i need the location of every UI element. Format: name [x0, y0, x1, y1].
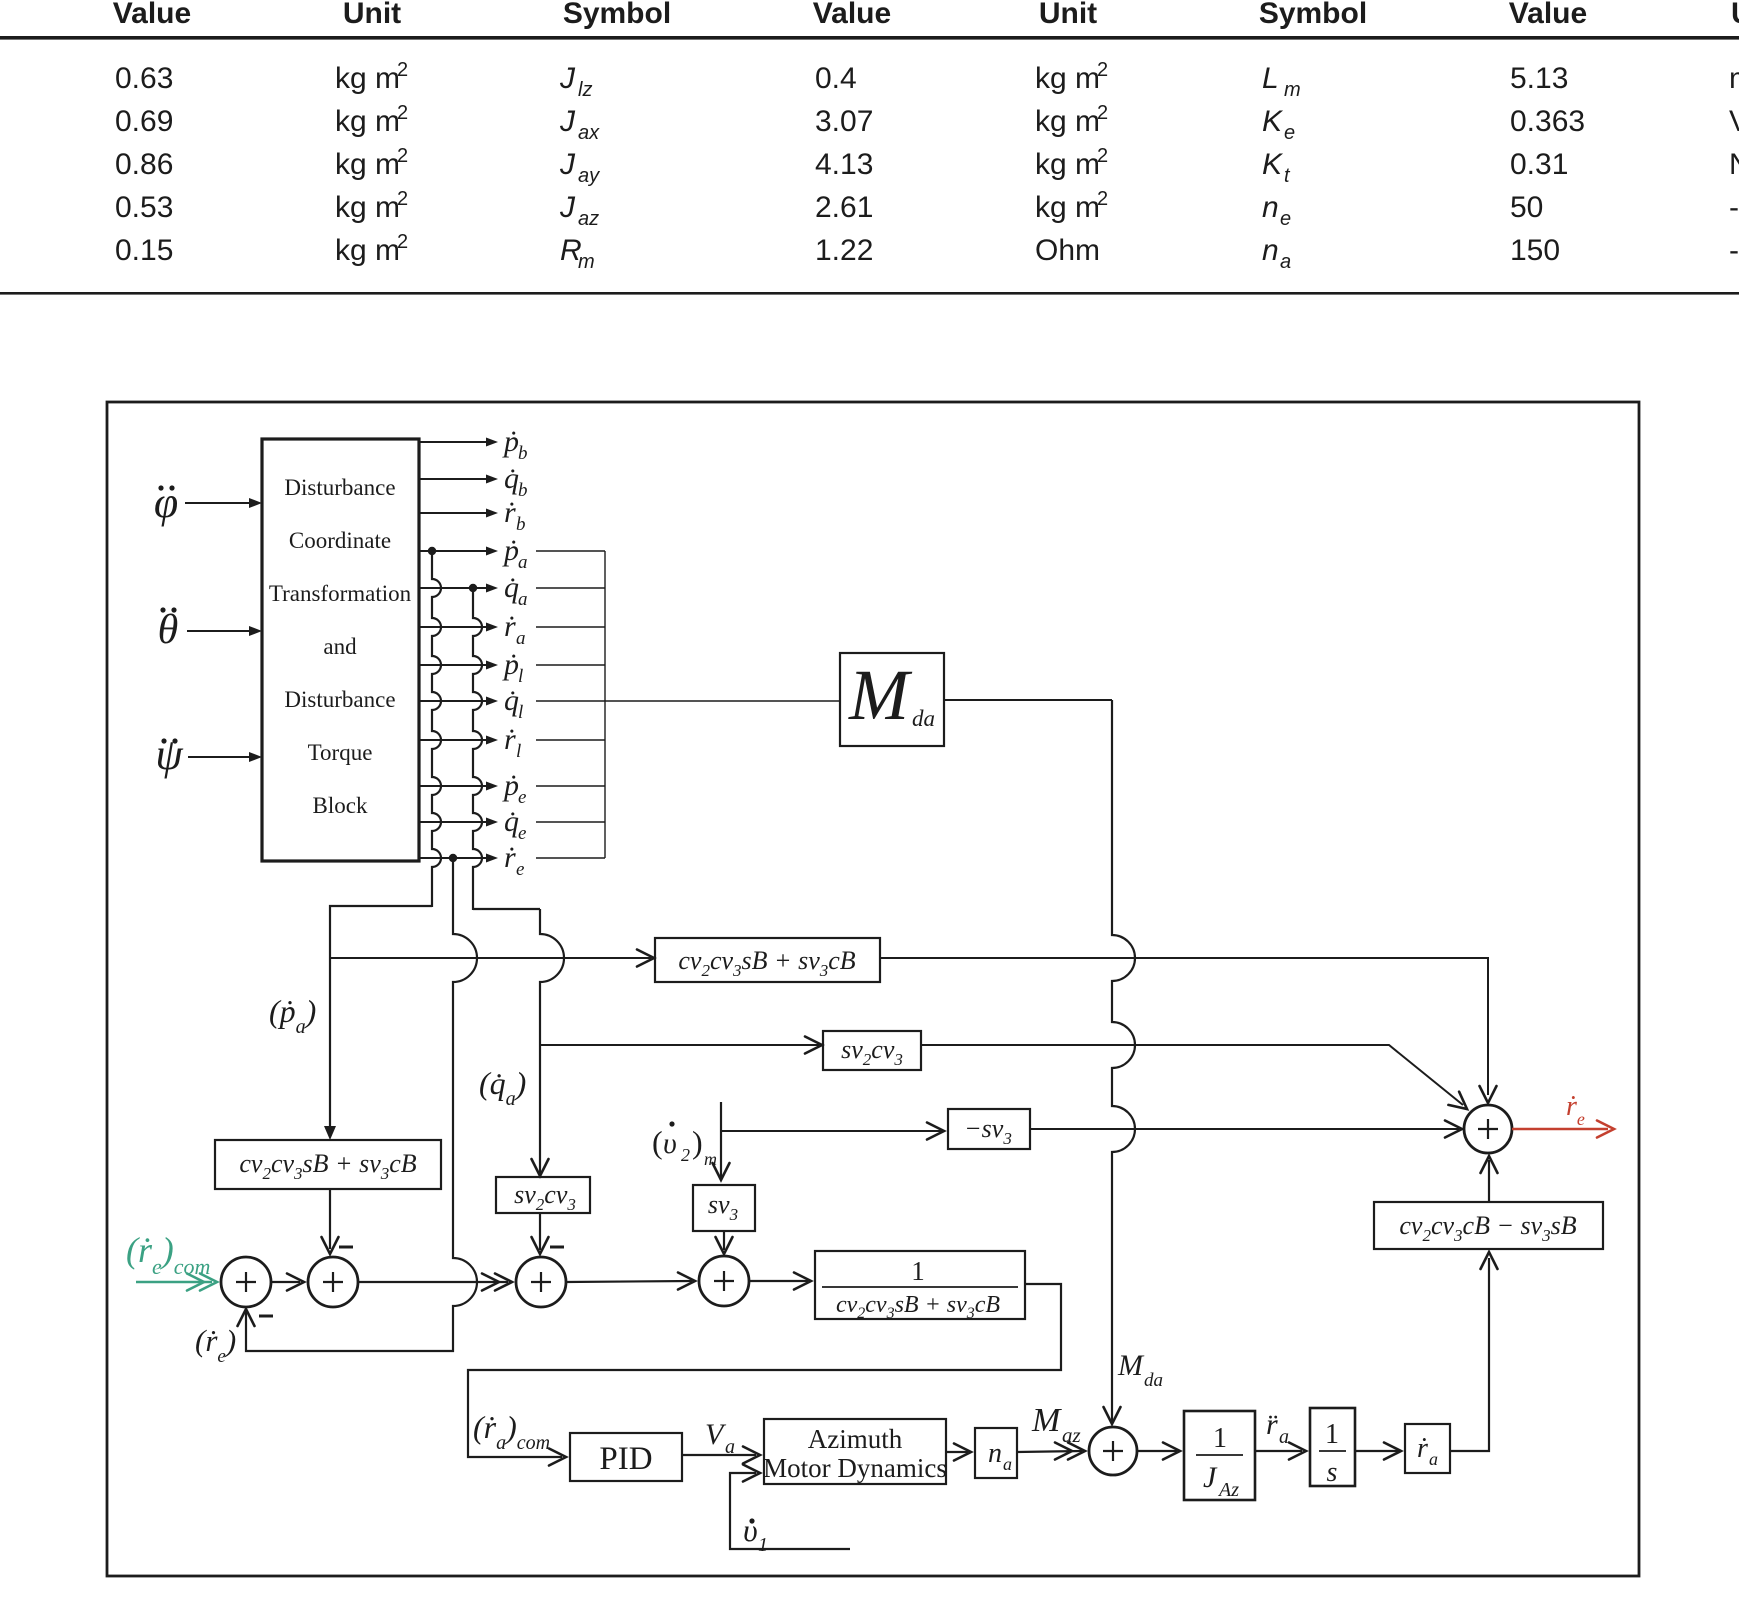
svg-text:e: e	[1280, 208, 1291, 230]
node label (rdot_e) feedback	[195, 1323, 236, 1367]
wire G1 output to summing S5	[880, 958, 1497, 1103]
svg-text:4.13: 4.13	[815, 148, 873, 181]
svg-text:a: a	[725, 1436, 735, 1458]
svg-text:V: V	[705, 1418, 727, 1451]
node label upsilon1dot	[743, 1512, 768, 1556]
svg-text:0.363: 0.363	[1510, 105, 1585, 138]
node label (rdot_a)_com	[473, 1409, 550, 1454]
wire phi-ddot to block	[185, 498, 262, 508]
svg-text:0.63: 0.63	[115, 62, 173, 95]
wire pdot_a to bus	[536, 550, 605, 552]
svg-text:e: e	[1284, 122, 1295, 144]
svg-text:cv2cv3sB + sv3cB: cv2cv3sB + sv3cB	[239, 1149, 416, 1183]
wire G2 output diagonal to summing S5	[921, 1045, 1467, 1109]
svg-text:e: e	[516, 859, 524, 880]
node label pdot_a	[502, 534, 528, 573]
transfer box G9 1/J_Az	[1184, 1411, 1255, 1501]
minus sign at S3 top	[550, 1246, 564, 1249]
svg-text:2: 2	[397, 231, 408, 253]
gain box G4 sv3	[693, 1185, 755, 1231]
node label qdot_b	[504, 462, 528, 501]
input phi-ddot label	[154, 478, 178, 527]
summing junction S2	[308, 1257, 358, 1307]
wire rdot_e output (red)	[1512, 1121, 1614, 1138]
svg-text:150: 150	[1510, 234, 1560, 267]
svg-text:0.4: 0.4	[815, 62, 857, 95]
wire G5 to summing S2	[322, 1189, 339, 1254]
svg-text:V s/rad: V s/rad	[1729, 105, 1739, 138]
node label rdot_a	[504, 610, 526, 649]
gain box G3 minus-sv3	[948, 1109, 1030, 1149]
gain box G2 sv2cv3 (right)	[823, 1031, 921, 1070]
svg-text:M: M	[1031, 1402, 1062, 1439]
wire block output pdot_b	[419, 438, 498, 447]
svg-text:1: 1	[911, 1256, 925, 1286]
gain box n_a	[975, 1428, 1017, 1478]
input psi-ddot label	[155, 730, 183, 779]
svg-text:−sv3: −sv3	[964, 1114, 1012, 1148]
svg-text:cv2cv3sB + sv3cB: cv2cv3sB + sv3cB	[836, 1292, 1000, 1322]
svg-text:da: da	[1144, 1370, 1163, 1391]
svg-text:): )	[692, 1124, 703, 1160]
svg-text:(q̇a): (q̇a)	[479, 1065, 526, 1110]
svg-text:0.31: 0.31	[1510, 148, 1568, 181]
svg-text:Value: Value	[113, 0, 191, 30]
node label V_a	[705, 1418, 735, 1458]
svg-text:az: az	[1062, 1423, 1081, 1447]
svg-text:and: and	[323, 634, 357, 659]
wire qdot_a to bus	[536, 587, 605, 589]
svg-text:a: a	[1279, 1426, 1289, 1448]
svg-text:J: J	[559, 191, 576, 224]
node label M_az	[1031, 1402, 1081, 1447]
wire rdot_a feedback up to G11	[1450, 1252, 1498, 1451]
wire rdot_e to bus	[536, 857, 605, 859]
svg-text:ṙe: ṙe	[1566, 1091, 1585, 1129]
node label qdot_l	[504, 684, 523, 723]
node label r-ddot_a	[1266, 1408, 1289, 1448]
svg-text:kg m: kg m	[335, 234, 400, 267]
svg-text:PID: PID	[599, 1441, 652, 1477]
summing junction S5	[1464, 1105, 1512, 1153]
svg-text:ṙ: ṙ	[504, 496, 516, 529]
block Azimuth Motor Dynamics	[763, 1419, 947, 1484]
svg-text:Coordinate: Coordinate	[289, 528, 391, 553]
transfer box G7 1/(cv2cv3sB+sv3cB)	[815, 1251, 1025, 1322]
svg-text:-: -	[1729, 191, 1739, 224]
svg-text:J: J	[1203, 1461, 1218, 1494]
block U1 Disturbance Coordinate Transformation and Disturbance Torque Block	[262, 439, 419, 861]
wire (pdot_a) vertical with hops	[324, 551, 441, 1140]
wire block output qdot_b	[419, 475, 498, 484]
wire qdot_l to bus	[536, 700, 605, 702]
wire qdot_a branch to sv2cv3 gain (right)	[540, 1037, 822, 1054]
wire G3 output to summing S5	[1030, 1121, 1462, 1138]
node label qdot_a	[504, 571, 528, 610]
svg-text:K: K	[1262, 105, 1284, 138]
svg-text:cv2cv3cB − sv3sB: cv2cv3cB − sv3sB	[1399, 1211, 1576, 1245]
svg-text:Azimuth: Azimuth	[808, 1424, 903, 1454]
svg-text:N m/A: N m/A	[1729, 148, 1739, 181]
svg-text:e: e	[518, 823, 526, 844]
svg-text:kg m: kg m	[335, 191, 400, 224]
svg-text:M: M	[848, 655, 913, 735]
junction dot rdot_e tap	[449, 854, 457, 862]
svg-text:2: 2	[1097, 188, 1108, 210]
block G8 M_da	[840, 653, 944, 746]
input theta-ddot label	[158, 607, 179, 653]
summing junction S6	[1089, 1427, 1137, 1475]
wire S2 to S3	[358, 1274, 512, 1291]
svg-text:ṗ: ṗ	[502, 534, 519, 567]
svg-text:q̇: q̇	[504, 805, 519, 838]
svg-text:l: l	[518, 702, 523, 723]
svg-text:Symbol: Symbol	[563, 0, 671, 30]
svg-text:υ: υ	[743, 1512, 758, 1548]
svg-text:kg m: kg m	[335, 62, 400, 95]
svg-text:(ṙe): (ṙe)	[195, 1323, 236, 1367]
svg-text:J: J	[559, 62, 576, 95]
svg-text:b: b	[518, 443, 528, 464]
svg-text:Torque: Torque	[308, 740, 373, 765]
node label rdot_l	[504, 723, 521, 762]
svg-text:2: 2	[1097, 145, 1108, 167]
svg-text:2.61: 2.61	[815, 191, 873, 224]
node label (upsilon2dot)_m	[652, 1121, 717, 1169]
svg-text:ax: ax	[578, 122, 600, 144]
svg-text:2: 2	[1097, 102, 1108, 124]
svg-text:Value: Value	[1509, 0, 1587, 30]
svg-text:kg m: kg m	[335, 105, 400, 138]
svg-text:J: J	[559, 148, 576, 181]
bus vertical (mux) right of output labels	[604, 551, 606, 858]
svg-text:Unit: Unit	[1731, 0, 1739, 30]
summing junction S1	[221, 1257, 271, 1307]
wire block output qdot_l	[419, 697, 498, 706]
svg-text:e: e	[518, 787, 526, 808]
transfer box G10 1/s (integrator)	[1310, 1408, 1355, 1488]
wire block output pdot_e	[419, 782, 498, 791]
svg-text:kg m: kg m	[1035, 62, 1100, 95]
wire qdot_l bus to Mda block	[605, 700, 840, 702]
svg-text:1.22: 1.22	[815, 234, 873, 267]
wire S1 to S2	[271, 1274, 304, 1291]
node label pdot_e	[502, 769, 526, 808]
wire rdot_l to bus	[536, 739, 605, 741]
svg-text:(ṙe)com: (ṙe)com	[126, 1230, 210, 1279]
wire S3 to S4	[566, 1273, 695, 1290]
svg-text:cv2cv3sB + sv3cB: cv2cv3sB + sv3cB	[678, 946, 855, 980]
table header row (cropped at top)	[113, 0, 1739, 30]
minus sign at S1 bottom	[259, 1315, 273, 1318]
gain box G5 cv2cv3sB+sv3cB (lower left)	[215, 1140, 441, 1189]
svg-text:2: 2	[397, 188, 408, 210]
svg-text:0.86: 0.86	[115, 148, 173, 181]
svg-text:K: K	[1262, 148, 1284, 181]
svg-text:kg m: kg m	[1035, 191, 1100, 224]
svg-text:s: s	[1327, 1457, 1338, 1488]
svg-text:(ṙa)com: (ṙa)com	[473, 1409, 550, 1454]
svg-text:q̇: q̇	[504, 571, 519, 604]
wire G4 to summing S4	[716, 1231, 733, 1254]
svg-text:ṗ: ṗ	[502, 648, 519, 681]
svg-text:50: 50	[1510, 191, 1543, 224]
svg-text:kg m: kg m	[1035, 148, 1100, 181]
svg-text:3.07: 3.07	[815, 105, 873, 138]
node label (pdot_a)	[269, 993, 316, 1038]
svg-text:Az: Az	[1217, 1479, 1239, 1501]
svg-text:mH: mH	[1729, 62, 1739, 95]
figure outer border	[107, 402, 1639, 1576]
summing junction S4	[699, 1256, 749, 1306]
wire G7 output to PID (ra_com path)	[468, 1284, 1061, 1466]
svg-text:a: a	[518, 589, 528, 610]
svg-text:1: 1	[1213, 1423, 1227, 1454]
svg-text:a: a	[518, 552, 528, 573]
wire 1/J_Az to 1/s	[1255, 1443, 1306, 1460]
node label pdot_l	[502, 648, 523, 687]
wire block output rdot_l	[419, 736, 498, 745]
svg-text:Motor Dynamics: Motor Dynamics	[763, 1453, 947, 1483]
wire S4 to G7	[749, 1273, 811, 1290]
svg-text:da: da	[912, 706, 935, 731]
svg-text:kg m: kg m	[335, 148, 400, 181]
svg-text:a: a	[1003, 1454, 1012, 1474]
svg-text:2: 2	[397, 59, 408, 81]
svg-text:0.15: 0.15	[115, 234, 173, 267]
table body rows	[115, 59, 1739, 273]
node label rdot_b	[504, 496, 526, 535]
wire G11 to summing S5	[1481, 1156, 1498, 1202]
wire pdot_e to bus	[536, 785, 605, 787]
wire green command into S1	[136, 1274, 217, 1291]
svg-text:υ: υ	[663, 1127, 677, 1160]
svg-text:r̈: r̈	[1266, 1408, 1278, 1441]
wire pdot_a branch to top gain box	[330, 950, 654, 967]
svg-text:2: 2	[1097, 59, 1108, 81]
gain box G11 cv2cv3cB-sv3sB	[1374, 1202, 1603, 1249]
wire block output qdot_a	[419, 584, 498, 593]
wire theta-ddot to block	[187, 626, 262, 636]
wire block output rdot_a	[419, 623, 498, 632]
wire AMD to n_a	[946, 1444, 971, 1461]
svg-text:m: m	[578, 251, 595, 273]
svg-text:Unit: Unit	[1039, 0, 1097, 30]
svg-text:2: 2	[397, 145, 408, 167]
svg-text:Transformation: Transformation	[269, 581, 412, 606]
table bottom rule	[0, 292, 1739, 295]
svg-text:az: az	[578, 208, 599, 230]
wire (rdot_e) feedback vertical with hops	[238, 858, 478, 1352]
svg-text:kg m: kg m	[1035, 105, 1100, 138]
junction dot qdot_a tap	[469, 584, 477, 592]
svg-text:ṙ: ṙ	[504, 841, 516, 874]
svg-text:sv2cv3: sv2cv3	[841, 1035, 903, 1069]
svg-text:0.53: 0.53	[115, 191, 173, 224]
svg-text:a: a	[1429, 1449, 1438, 1469]
node label M_da (near S6)	[1117, 1349, 1163, 1391]
svg-text:ay: ay	[578, 165, 600, 187]
wire (qdot_a) vertical with hops	[473, 588, 564, 1176]
svg-text:L: L	[1262, 62, 1279, 95]
wire n_a to summing S6	[1017, 1443, 1085, 1460]
wire S6 to 1/J_Az	[1137, 1443, 1180, 1460]
svg-text:M: M	[1117, 1349, 1145, 1382]
node box rdot_a	[1405, 1424, 1450, 1473]
wire block output rdot_e	[419, 854, 498, 863]
svg-text:t: t	[1284, 165, 1291, 187]
wire block output qdot_e	[419, 818, 498, 827]
svg-text:ṗ: ṗ	[502, 425, 519, 458]
svg-text:Block: Block	[313, 793, 368, 818]
junction dot pdot_a tap	[428, 547, 436, 555]
svg-text:0.69: 0.69	[115, 105, 173, 138]
wire rdot_a to bus	[536, 626, 605, 628]
svg-text:Value: Value	[813, 0, 891, 30]
wire block output pdot_l	[419, 661, 498, 670]
svg-text:(: (	[652, 1124, 663, 1160]
wire PID to Azimuth Motor Dynamics	[682, 1447, 760, 1464]
wire psi-ddot to block	[188, 752, 262, 762]
svg-text:Disturbance: Disturbance	[284, 475, 395, 500]
svg-text:1: 1	[1325, 1419, 1339, 1450]
wire G6 to summing S3	[532, 1213, 549, 1254]
svg-text:n: n	[1262, 234, 1279, 267]
node label rdot_e output (red)	[1566, 1091, 1585, 1129]
svg-text:sv3: sv3	[708, 1190, 738, 1224]
svg-text:n: n	[1262, 191, 1279, 224]
block PID	[570, 1433, 682, 1481]
svg-text:-: -	[1729, 234, 1739, 267]
svg-text:n: n	[988, 1438, 1002, 1469]
wire qdot_e to bus	[536, 821, 605, 823]
wire pdot_l to bus	[536, 664, 605, 666]
wire upsilon1dot input stub	[730, 1465, 850, 1550]
svg-text:b: b	[516, 514, 526, 535]
gain box G6 sv2cv3 (lower)	[496, 1177, 590, 1214]
svg-text:sv2cv3: sv2cv3	[514, 1180, 576, 1214]
svg-text:b: b	[518, 480, 528, 501]
svg-text:a: a	[1280, 251, 1291, 273]
wire block output rdot_b	[419, 509, 498, 518]
node label pdot_b	[502, 425, 528, 464]
svg-text:a: a	[516, 628, 526, 649]
svg-text:m: m	[1284, 79, 1301, 101]
summing junction S3	[516, 1257, 566, 1307]
svg-text:lz: lz	[578, 79, 592, 101]
node label (qdot_a)	[479, 1065, 526, 1110]
svg-text:Disturbance: Disturbance	[284, 687, 395, 712]
wire block output pdot_a	[419, 547, 498, 556]
svg-text:2: 2	[681, 1145, 690, 1165]
wire M_da output vertical with hops	[944, 700, 1135, 1424]
svg-text:θ: θ	[158, 607, 179, 653]
wire (v2)m input stub	[713, 1102, 945, 1180]
gain box G1 cv2cv3sB+sv3cB (upper right)	[655, 938, 880, 982]
svg-text:2: 2	[397, 102, 408, 124]
svg-text:Ohm: Ohm	[1035, 234, 1100, 267]
svg-text:Unit: Unit	[343, 0, 401, 30]
svg-text:φ: φ	[154, 478, 178, 527]
minus sign at S2 top	[339, 1246, 353, 1249]
svg-text:ṙ: ṙ	[504, 610, 516, 643]
node label rdot_e	[504, 841, 524, 880]
svg-text:1: 1	[758, 1534, 768, 1556]
wire 1/s to rdot_a box	[1355, 1443, 1401, 1460]
node label (rdot_e)_com (green)	[126, 1230, 210, 1279]
svg-text:q̇: q̇	[504, 462, 519, 495]
node label qdot_e	[504, 805, 526, 844]
svg-text:ψ: ψ	[155, 730, 183, 779]
svg-text:5.13: 5.13	[1510, 62, 1568, 95]
table top rule	[0, 36, 1739, 40]
svg-text:ṙ: ṙ	[504, 723, 516, 756]
svg-text:J: J	[559, 105, 576, 138]
svg-text:Symbol: Symbol	[1259, 0, 1367, 30]
svg-text:ṗ: ṗ	[502, 769, 519, 802]
svg-text:ṙ: ṙ	[1417, 1433, 1428, 1464]
svg-text:(ṗa): (ṗa)	[269, 993, 316, 1038]
svg-text:q̇: q̇	[504, 684, 519, 717]
svg-text:l: l	[516, 741, 521, 762]
